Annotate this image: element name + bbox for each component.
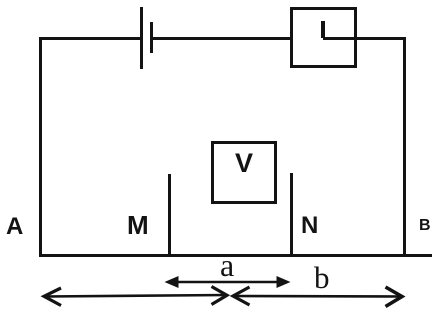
probe wire N xyxy=(290,173,293,254)
voltmeter U2 box xyxy=(211,141,277,204)
ammeter U1 box xyxy=(290,7,357,68)
node A xyxy=(6,215,23,239)
wire battery to ammeter xyxy=(153,37,291,40)
node M xyxy=(127,212,149,238)
probe wire M xyxy=(168,174,171,254)
battery B1 long plate xyxy=(140,7,143,69)
voltmeter label V xyxy=(235,150,253,177)
node B xyxy=(419,218,431,234)
label a xyxy=(220,249,234,281)
wire ammeter to top-right corner xyxy=(323,37,406,40)
wire left vertical xyxy=(39,37,42,256)
wire top-left segment xyxy=(39,37,142,40)
wire bottom A to B xyxy=(39,254,432,257)
label b xyxy=(314,262,330,293)
wire right vertical xyxy=(403,37,406,257)
node N xyxy=(301,214,318,238)
ammeter label I xyxy=(321,21,325,38)
battery B1 short plate xyxy=(150,22,153,53)
